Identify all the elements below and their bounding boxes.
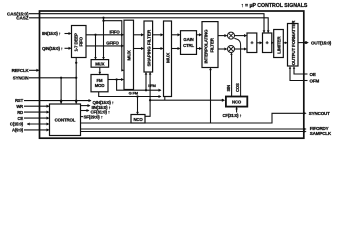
junction IFIFO branch down to input mux (94, 34, 96, 36)
svg-text:RST: RST (15, 98, 24, 103)
wire mux to FM modulator (99, 67, 101, 74)
wire shaping filter to mux2 Q path (153, 48, 163, 50)
svg-text:FM: FM (97, 78, 103, 83)
wire gain to interpolating filter I path (197, 34, 202, 36)
wire interp filter to I mixer (218, 35, 227, 37)
control block (50, 104, 81, 136)
1-7 deep FIFO block (72, 26, 87, 58)
cascade summer (adder) (263, 33, 272, 53)
wire mixer Q to summer (235, 48, 247, 50)
summer I+Q (adder) (247, 33, 257, 53)
gain control block (181, 31, 197, 55)
svg-text:MUX: MUX (126, 49, 132, 60)
wire CAS(15:0) bus from pin to cascade summer (29, 14, 264, 33)
wire FIFO bottom tap down into control block (75, 58, 77, 104)
carrier NCO block (bold) (226, 97, 247, 107)
svg-text:CASZ: CASZ (16, 16, 29, 21)
svg-text:CTRL: CTRL (183, 43, 194, 48)
wire SF register net from control (81, 116, 84, 118)
svg-text:SYNCIN: SYNCIN (13, 76, 29, 81)
wire RD into control (24, 111, 49, 113)
chip outer boundary box (40, 11, 304, 138)
svg-text:SHAPING FILTER: SHAPING FILTER (146, 29, 151, 66)
wire QIN into FIFO (65, 47, 71, 49)
shaping filter block (144, 21, 153, 72)
wire CF register net from control (81, 110, 89, 112)
svg-text:G FM: G FM (129, 91, 139, 96)
svg-text:INTERPOLATING: INTERPOLATING (204, 29, 209, 64)
FM modulator block (91, 75, 108, 92)
limiter block (274, 30, 284, 58)
wire COS from carrier NCO up to I mixer (234, 38, 240, 96)
svg-text:CE: CE (17, 116, 23, 121)
wire mux1 to shaping filter I path (134, 34, 144, 36)
wire mux2 to gain control I path (172, 34, 180, 36)
wire A into control (24, 129, 49, 131)
wire cascade summer to limiter (272, 42, 273, 44)
mixer I (multiplier) (228, 32, 235, 39)
wire clock line from shaping filter riser to carrier NCO (149, 99, 151, 101)
svg-text:FILTER: FILTER (209, 37, 214, 52)
wire OE control into output formatter (294, 67, 304, 74)
svg-text:NCO: NCO (232, 100, 242, 105)
svg-text:C(15:0): C(15:0) (10, 122, 24, 127)
svg-text:REFCLK: REFCLK (12, 68, 30, 73)
wire I FM line from FM mod bottom to second data mux (99, 92, 161, 97)
svg-text:LIMITER: LIMITER (276, 36, 281, 54)
wire mux2 to gain control Q path (172, 48, 180, 50)
NCO (FM) block (131, 115, 145, 124)
wire SAMPCLK line from control to pin (81, 131, 304, 133)
wire shaping filter to mux2 I path (153, 34, 163, 36)
svg-text:+: + (250, 41, 253, 47)
svg-text:IIN(15:0) ↑: IIN(15:0) ↑ (42, 31, 61, 36)
wire SYNCIN routed down into control block (29, 77, 76, 79)
wire FM mod output to first data mux (108, 79, 123, 81)
interpolating filter block (202, 22, 218, 68)
svg-text:MUX: MUX (166, 52, 172, 63)
wire sync line from control to SYNCOUT pin (81, 113, 304, 123)
svg-text:SIN: SIN (226, 85, 231, 92)
svg-text:MOD: MOD (95, 83, 105, 88)
second data mux (tall) (164, 21, 172, 97)
svg-text:OE: OE (310, 72, 316, 77)
wire OFM control into output formatter (290, 67, 304, 81)
wire REFCLK into chip boundary (29, 69, 39, 71)
svg-text:I FM: I FM (148, 83, 156, 88)
svg-text:OUTPUT FORMATTER: OUTPUT FORMATTER (291, 20, 296, 66)
wire SIN from carrier NCO up to Q mixer (231, 53, 233, 96)
wire interp filter to Q mixer (218, 48, 227, 50)
wire IFIFO from FIFO to first data mux (86, 34, 123, 36)
wire mixer I to summer (235, 35, 247, 37)
svg-text:COS: COS (235, 83, 240, 92)
svg-text:GAIN: GAIN (183, 37, 193, 42)
mixer Q (multiplier) (228, 46, 235, 53)
svg-text:OUT(15:0): OUT(15:0) (311, 40, 332, 45)
wire GFIFO from FIFO to first data mux (86, 45, 123, 47)
svg-text:QIN(15:0) ↑: QIN(15:0) ↑ (42, 46, 63, 51)
wire CASZ branch down to input mux (102, 17, 104, 19)
svg-text:CF(31:0) ↑: CF(31:0) ↑ (222, 113, 241, 118)
wire CASZ branch around to first data mux (102, 20, 104, 22)
output formatter block (288, 24, 299, 67)
svg-text:RD: RD (17, 110, 23, 115)
wire limiter to output formatter (283, 42, 286, 44)
wire summer to cascade summer (257, 42, 262, 44)
wire WR into control (24, 105, 49, 107)
wire mux2 bottom stub to clock line (164, 97, 166, 101)
wire OUT bus to pin (298, 42, 305, 44)
wire interpolating filter clock riser (210, 68, 212, 123)
wire mux1 to shaping filter Q path (134, 48, 144, 50)
junction FM line down to NCO (136, 95, 138, 97)
wire gain to interpolating filter Q path (197, 48, 202, 50)
wire IIN into FIFO (65, 33, 71, 35)
wire IIN register net from control (81, 105, 90, 107)
input select mux (small) (91, 60, 109, 68)
junction G FM up into shaping filter (145, 89, 147, 91)
svg-text:CONTROL: CONTROL (55, 117, 76, 122)
svg-text:FIFO: FIFO (79, 36, 84, 46)
svg-text:OFM: OFM (310, 78, 320, 83)
svg-text:SAMPCLK: SAMPCLK (310, 131, 332, 136)
svg-text:IFIFO: IFIFO (109, 29, 120, 34)
svg-text:GFIFO: GFIFO (106, 40, 119, 45)
svg-text:+: + (266, 41, 269, 47)
svg-text:WR: WR (16, 104, 23, 109)
svg-text:NCO: NCO (133, 117, 143, 122)
svg-text:SF(29:0) ↑: SF(29:0) ↑ (84, 114, 103, 119)
first data mux (tall) (124, 20, 134, 89)
wire CE into control (24, 117, 49, 119)
svg-text:A(9:0): A(9:0) (12, 128, 24, 133)
wire SYNCIN branch down into control block (60, 77, 62, 79)
wire FIFORDY line from control to pin (81, 128, 304, 130)
svg-text:↑ = µP CONTROL SIGNALS: ↑ = µP CONTROL SIGNALS (241, 3, 308, 9)
wire CASZ from pin to cascade summer (29, 18, 268, 32)
wire NCO link up to shaping filter (145, 73, 150, 117)
wire RST / QIN distribution line across to net label (24, 100, 91, 102)
wire CF into carrier NCO (236, 107, 238, 112)
svg-text:SYNCOUT: SYNCOUT (309, 111, 330, 116)
svg-text:MUX: MUX (95, 62, 104, 67)
wire G FM line to second data mux (117, 80, 161, 91)
